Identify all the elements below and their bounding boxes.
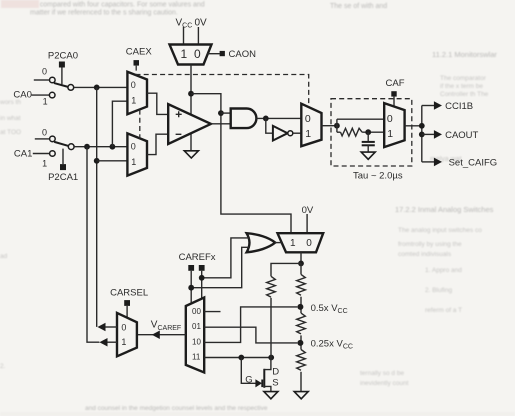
wire CAF mux output	[405, 125, 422, 127]
wire CA1 rail down	[87, 147, 99, 343]
svg-text:0V: 0V	[195, 18, 208, 29]
svg-text:0: 0	[121, 322, 126, 332]
svg-text:0: 0	[42, 127, 47, 137]
control square CAEX	[134, 60, 140, 66]
mux CAF filter select	[384, 103, 404, 147]
control square CARSEL	[124, 300, 130, 306]
terminal common CA0	[68, 85, 74, 91]
wire CA0 to minus-mux input1	[97, 160, 128, 162]
dashed CAEX control net	[136, 66, 309, 107]
svg-text:ad: ad	[0, 253, 8, 260]
node ladder split	[298, 261, 304, 267]
mux reference select	[186, 298, 204, 373]
svg-text:P2CA0: P2CA0	[48, 51, 78, 62]
op-amp comparator	[168, 104, 211, 144]
svg-text:0: 0	[306, 238, 312, 249]
wire OR output	[275, 242, 282, 244]
wire inverter to mux	[293, 132, 302, 134]
wire 00 stub	[204, 311, 220, 313]
svg-text:1: 1	[131, 96, 136, 106]
svg-text:2.: 2.	[0, 363, 6, 370]
node CA0 rail	[94, 85, 100, 91]
control square CAREF0	[199, 265, 205, 271]
wire polarity mux output	[322, 125, 337, 127]
wire to transistor node	[270, 298, 272, 358]
ground comparator	[184, 151, 198, 158]
mux minus input select	[127, 133, 147, 175]
transistor Q1	[261, 380, 263, 388]
terminal common CA1	[68, 144, 74, 150]
resistor R1	[297, 274, 306, 295]
node CA1 rail	[84, 144, 90, 150]
ground filter	[361, 152, 375, 159]
wire CA0 terminal	[32, 94, 50, 96]
resistor ref diode branch	[267, 276, 276, 297]
wire OR input A	[202, 238, 250, 278]
wire gate tie	[241, 358, 256, 384]
minus sign	[176, 133, 182, 135]
svg-text:The analog input switches co: The analog input switches co	[398, 227, 482, 234]
control square CAREF1	[188, 265, 194, 271]
node AND enable	[218, 110, 224, 116]
svg-text:CARSEL: CARSEL	[110, 288, 148, 299]
mux CAON power select	[170, 45, 212, 65]
svg-text:1: 1	[43, 97, 48, 107]
svg-text:1: 1	[131, 157, 136, 167]
svg-text:referm of a T: referm of a T	[425, 307, 462, 314]
svg-text:comted indivisuals: comted indivisuals	[398, 251, 452, 258]
control square CAF	[391, 91, 396, 96]
svg-text:0: 0	[194, 47, 201, 61]
svg-text:2. Blufing: 2. Blufing	[425, 287, 452, 294]
svg-text:1: 1	[387, 128, 393, 140]
inverter	[273, 126, 288, 141]
control square P2CA1	[60, 164, 66, 170]
node AND output	[263, 116, 269, 122]
wire CARSEL out0	[105, 326, 118, 328]
svg-text:CA1: CA1	[14, 149, 32, 160]
svg-text:0: 0	[131, 80, 136, 90]
switch lever CA0	[55, 83, 68, 87]
wire CA1 terminal	[33, 153, 50, 155]
mux output polarity (CAEX)	[301, 104, 321, 147]
wire output branches	[421, 106, 423, 162]
svg-text:10: 10	[192, 337, 201, 346]
svg-text:in what: in what	[0, 115, 21, 122]
wire ladder mux output	[300, 252, 302, 263]
terminal throw1 CA1	[50, 151, 56, 157]
svg-text:CAREFx: CAREFx	[179, 252, 216, 263]
wire to inverter	[266, 118, 273, 133]
svg-text:fromtrolly by using the: fromtrolly by using the	[398, 241, 462, 248]
svg-text:1. Appro and: 1. Appro and	[425, 267, 462, 274]
wire ladder top right	[300, 263, 302, 274]
svg-text:CCI1B: CCI1B	[445, 101, 473, 112]
svg-text:Tau ~ 2.0µs: Tau ~ 2.0µs	[353, 170, 403, 181]
svg-text:CA0: CA0	[13, 89, 31, 100]
svg-text:inevidently count: inevidently count	[360, 380, 409, 387]
svg-text:The se of with and: The se of with and	[330, 3, 387, 10]
svg-text:0: 0	[305, 113, 311, 125]
svg-text:G: G	[245, 374, 252, 385]
control square CAON	[220, 51, 225, 56]
wire 10 to half tap	[204, 307, 297, 343]
svg-text:1: 1	[181, 47, 188, 61]
wire power branch to AND/ladder	[191, 94, 291, 234]
wire bypass to CAF mux	[337, 118, 384, 120]
wire CAREF0 stem	[201, 271, 203, 299]
svg-text:Controller th The: Controller th The	[440, 91, 489, 98]
svg-text:at TOO: at TOO	[0, 129, 21, 136]
wire comparator output	[211, 123, 231, 125]
wire CCI1B	[422, 105, 434, 107]
wire drain	[264, 358, 271, 370]
svg-text:0: 0	[131, 142, 136, 152]
resistor R2	[297, 313, 306, 334]
svg-text:S: S	[272, 377, 278, 388]
mux CARSEL	[117, 313, 137, 356]
svg-text:17.2.2 Inmal Analog Switches: 17.2.2 Inmal Analog Switches	[395, 205, 494, 214]
wire 0V stem bottom	[306, 214, 308, 233]
wire VCAREF output	[137, 334, 186, 336]
wire ladder top left branch	[271, 263, 301, 276]
svg-text:CAEX: CAEX	[126, 46, 153, 57]
svg-text:Set_CAIFG: Set_CAIFG	[449, 158, 498, 169]
wire throw0 stub	[34, 79, 50, 81]
svg-text:0: 0	[387, 113, 393, 125]
wire AND top input	[221, 112, 231, 114]
wire to filter resistor	[337, 131, 341, 133]
svg-text:be compared with four capacito: be compared with four capacitors. For so…	[30, 2, 205, 9]
wire P2CA0 stem	[61, 68, 63, 85]
svg-text:if the x term be: if the x term be	[440, 83, 483, 90]
node CA1 to plus-mux	[110, 144, 116, 150]
svg-text:11.2.1 Monitorswlar: 11.2.1 Monitorswlar	[432, 50, 497, 59]
svg-text:1: 1	[305, 128, 311, 140]
wire CAREF1 stem	[190, 271, 192, 304]
svg-text:0: 0	[42, 66, 47, 76]
ground ladder	[294, 392, 308, 399]
wire CA0 rail down	[96, 87, 98, 327]
mux plus input select	[127, 72, 147, 114]
svg-text:ternally so d be: ternally so d be	[360, 370, 404, 377]
svg-text:The comparator: The comparator	[440, 75, 487, 82]
wire CA1 common to mux	[74, 146, 127, 148]
wire CARSEL out1	[107, 341, 118, 343]
node half tap	[297, 304, 303, 310]
wire minus mux output	[147, 134, 168, 154]
dashed box filter	[331, 99, 412, 166]
svg-text:1: 1	[121, 337, 126, 347]
wire CAON control	[207, 53, 220, 55]
OR gate	[247, 233, 276, 252]
wire CARSEL stem	[126, 306, 128, 318]
svg-text:CAON: CAON	[229, 49, 257, 60]
wire plus mux output	[147, 93, 168, 114]
wire CAF stem	[393, 97, 395, 108]
terminal throw0	[50, 77, 56, 83]
svg-text:P2CA1: P2CA1	[48, 172, 78, 183]
resistor R3	[297, 350, 306, 371]
node power branch	[188, 91, 194, 97]
wire throw0 stub CA1	[35, 138, 50, 140]
wire source	[264, 386, 271, 391]
svg-text:00: 00	[192, 307, 201, 316]
wire 01 to quarter tap	[204, 327, 297, 343]
capacitor filter	[367, 132, 369, 141]
resistor filter	[341, 128, 363, 136]
plus sign	[176, 111, 182, 117]
wire 0V stem	[197, 27, 199, 45]
dashed CAEX to input muxes	[139, 110, 141, 139]
svg-text:1: 1	[42, 158, 47, 168]
wire AND output	[256, 117, 301, 119]
AND gate	[231, 109, 257, 129]
svg-text:CAF: CAF	[386, 78, 405, 89]
svg-text:1: 1	[290, 238, 296, 249]
svg-text:01: 01	[192, 322, 201, 331]
wire CA1 up to plus-mux input1	[112, 101, 127, 147]
node filter split	[334, 123, 340, 129]
node CA0 to minus-mux	[94, 158, 100, 164]
node filter cap	[365, 129, 371, 135]
terminal throw1	[49, 92, 55, 98]
svg-text:CAOUT: CAOUT	[445, 130, 478, 141]
wire OR input B	[191, 247, 250, 287]
control square P2CA0	[59, 62, 65, 68]
switch lever CA1	[55, 142, 69, 146]
wire CAOUT	[422, 133, 434, 135]
terminal throw0 CA1	[50, 136, 56, 142]
svg-text:and counsel in the medgetion c: and counsel in the medgetion counsel lev…	[85, 405, 268, 412]
wire VCC stem	[183, 27, 185, 45]
node quarter tap	[297, 340, 303, 346]
ground transistor	[264, 392, 278, 399]
wire CA0 common to mux	[74, 86, 128, 88]
wire Set_CAIFG	[422, 161, 434, 163]
wire power mux output down through comparator to ground	[190, 65, 192, 151]
svg-text:matter if we referenced to the: matter if we referenced to the s sharing…	[30, 10, 178, 17]
svg-text:D: D	[272, 367, 279, 378]
mux ladder power select	[278, 233, 324, 252]
wire 11 to transistor ref	[204, 357, 271, 359]
wire split vertical	[336, 119, 338, 132]
wire P2CA1 stem	[62, 149, 64, 165]
svg-text:11: 11	[192, 353, 201, 362]
